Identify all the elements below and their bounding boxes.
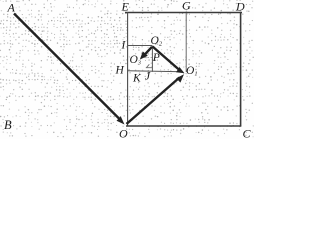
svg-text:H: H [115,65,125,77]
rectangle left edge E to O [127,12,129,126]
svg-text:B: B [4,118,12,132]
line O to O1 (thick, arrow at O1) [127,78,180,125]
dashed line O3 to P [141,57,152,59]
arrowhead at O3 [140,51,148,59]
arrow O2 to O3 (thick, arrow at O3) [145,47,153,55]
svg-text:J: J [145,71,151,83]
right-angle mark at J [146,64,152,68]
svg-text:K: K [132,73,142,85]
arrowhead at O1 upper [176,67,185,73]
svg-text:G: G [182,0,191,13]
arrowhead at O [117,116,125,124]
svg-text:P: P [152,52,160,64]
rectangle right edge D to C [240,12,242,127]
line O2 to O1 (thick, arrow at O1) [153,47,181,71]
arrowhead at O1 lower [176,74,184,82]
svg-text:C: C [243,127,252,140]
line I to O2 [127,45,153,47]
rectangle top edge E to D [125,12,242,14]
svg-text:E: E [121,0,130,14]
line H to O1 [127,71,183,72]
line G vertical [185,13,187,72]
rectangle bottom edge O to C [126,125,241,127]
svg-text:O: O [119,127,128,140]
svg-text:A: A [7,1,16,15]
line A to O (thick, arrow at O) [14,14,120,120]
svg-text:D: D [235,0,245,14]
line O2 to J vertical [151,46,153,72]
